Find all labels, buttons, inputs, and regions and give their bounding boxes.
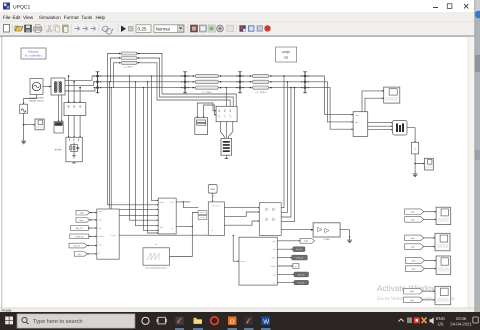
menu bar: [0, 12, 474, 22]
svg-text:Vab4: Vab4: [411, 211, 415, 214]
svg-text:Tools: Tools: [81, 15, 93, 20]
scope STop: [384, 87, 400, 103]
wire S3 bottom to S5: [233, 235, 240, 262]
svg-text:Programmable: Programmable: [29, 97, 44, 100]
watermark activate windows: [377, 284, 456, 302]
svg-text:0.25: 0.25: [138, 27, 147, 32]
svg-text:Iab4: Iab4: [411, 218, 415, 221]
logic glyphs pair: [198, 211, 207, 220]
DC link block: [195, 118, 208, 135]
svg-text:Normal: Normal: [156, 27, 170, 32]
svg-text:Vab1: Vab1: [79, 219, 83, 222]
wire LC out to ground: [340, 230, 352, 243]
svg-text:LCfilter: LCfilter: [323, 238, 330, 241]
tag-scope group 4: [404, 286, 451, 305]
wire B3 to scope B4 and ground: [413, 154, 424, 177]
block: signal builder small: [20, 95, 37, 114]
svg-text:name: name: [241, 261, 246, 263]
wires S2 to S3: [176, 201, 198, 227]
svg-text:Vab6: Vab6: [410, 290, 414, 293]
bus bar B2: [181, 72, 189, 93]
block B1 three-phase measurement: [353, 112, 368, 137]
svg-text:Av: Av: [155, 243, 157, 246]
ground under load: [73, 162, 76, 163]
svg-text:L2_100km: L2_100km: [256, 91, 267, 94]
subsystem S5 measurements display: [239, 237, 277, 285]
series transformer ST: [221, 138, 232, 158]
wire bundle V2 PWM to bus: [281, 75, 295, 221]
svg-text:30 MW: 30 MW: [54, 149, 62, 152]
measurement block M1 three-phase V-I: [64, 75, 86, 115]
svg-text:Vdc_D1: Vdc_D1: [73, 244, 80, 247]
svg-text:File: File: [3, 15, 11, 20]
subsystem S3 pulse generator: [208, 202, 224, 236]
svg-text:10:06: 10:06: [456, 316, 467, 321]
svg-text:Iab5: Iab5: [411, 246, 415, 249]
wire S1 output: [119, 234, 210, 236]
svg-text:Qst_D1: Qst_D1: [298, 273, 304, 276]
svg-text:Iab: Iab: [273, 248, 276, 251]
svg-text:Edit: Edit: [13, 15, 22, 20]
wires B1 to scope STop: [362, 90, 384, 112]
inverter INV1 (series converter): [216, 106, 237, 121]
svg-text:US: US: [438, 321, 444, 326]
subsystem S1 measurements: [97, 209, 119, 259]
svg-text:Iab6: Iab6: [410, 299, 414, 302]
svg-text:Vab5: Vab5: [411, 237, 415, 240]
svg-text:Iab_D1: Iab_D1: [296, 248, 302, 251]
svg-text:SAG: SAG: [210, 188, 215, 191]
THD meter B2: [393, 120, 408, 135]
svg-text:VcPlla: VcPlla: [98, 235, 104, 238]
svg-text:24-04-2021: 24-04-2021: [450, 321, 472, 326]
svg-text:Vst_D1: Vst_D1: [298, 281, 304, 284]
wire nested bends to inverter top: [157, 54, 236, 107]
svg-text:InP Pulse: InP Pulse: [212, 205, 220, 208]
svg-text:CB: CB: [284, 56, 288, 60]
svg-text:Vabc: Vabc: [355, 114, 359, 117]
line segment L1_70km: [192, 74, 221, 93]
svg-text:Vabc: Vabc: [98, 210, 102, 213]
block: multimeter under T1: [54, 95, 63, 133]
from tags column: [69, 210, 97, 256]
bus bar B3: [236, 72, 244, 93]
wires M1 to load: [68, 116, 81, 138]
svg-text:VcPll_D1: VcPll_D1: [296, 257, 304, 260]
svg-text:VcPll: VcPll: [271, 257, 276, 260]
block B3 gain: [411, 142, 418, 154]
svg-text:Iab: Iab: [98, 227, 101, 230]
wire source to T1: [43, 86, 51, 88]
LC filter block: [313, 223, 340, 241]
svg-text:Iab3: Iab3: [412, 268, 416, 271]
discrete sawtooth generator DG: [143, 243, 170, 269]
svg-text:Vab: Vab: [272, 240, 275, 243]
bus bar B4: [301, 72, 309, 93]
svg-text:Vab2: Vab2: [79, 212, 83, 215]
svg-text:P_abc: P_abc: [110, 234, 115, 237]
wires B1 to THD meter B2: [368, 122, 393, 131]
svg-text:Iabc: Iabc: [98, 219, 102, 222]
ground G1: [22, 125, 26, 144]
wires DC to inverter INV1: [197, 103, 217, 118]
wire bundle V1 to control subsystem: [107, 75, 158, 233]
svg-text:UPQC: UPQC: [282, 50, 292, 54]
svg-text:Iabc: Iabc: [355, 121, 358, 124]
wire to scope Sc1: [23, 113, 35, 125]
load block 30 MW: [54, 137, 82, 162]
tag-scope group 2: [405, 233, 450, 251]
source: Programmable Voltage Source: [29, 79, 45, 103]
svg-text:Help: Help: [96, 15, 106, 20]
svg-text:Vdc: Vdc: [98, 243, 101, 246]
desktop strip right: [475, 0, 480, 330]
svg-text:Format: Format: [64, 15, 80, 20]
subsystem S2 controller: [158, 198, 176, 234]
wire bus phase A: [65, 76, 324, 80]
wire bus phase B: [65, 82, 327, 86]
svg-text:L1_30km: L1_30km: [123, 66, 133, 69]
svg-text:W: W: [263, 319, 269, 326]
svg-text:freq: freq: [160, 226, 163, 229]
svg-text:TdRab: TdRab: [270, 265, 275, 268]
line segment L2_100km: [250, 74, 272, 93]
tag-scope group 1: [405, 207, 451, 224]
line segment L1_30km stub: [108, 52, 163, 88]
toolbar: [0, 22, 474, 36]
svg-text:Vab7: Vab7: [304, 240, 308, 243]
annotation UPQC CB: [276, 47, 297, 62]
svg-text:Vabc: Vabc: [160, 201, 164, 204]
status bar: [0, 308, 474, 313]
taskbar: [0, 312, 480, 330]
wire DG up: [170, 227, 193, 257]
wire B2 to B3: [407, 128, 416, 143]
svg-text:O: O: [230, 318, 235, 325]
tag-scope group 3: [405, 256, 450, 274]
wire S4 to LC filter: [281, 229, 313, 231]
svg-text:Iab_D1: Iab_D1: [76, 227, 84, 230]
wires bus to B1: [324, 76, 353, 130]
svg-text:VcPll_D1: VcPll_D1: [75, 235, 84, 238]
svg-text:Voltage Source: Voltage Source: [29, 100, 45, 103]
goto tags from S5: [277, 238, 314, 284]
svg-text:Ts = 5.05e-005 s.: Ts = 5.05e-005 s.: [25, 54, 43, 57]
scope Sc1: [35, 119, 44, 130]
svg-text:View: View: [23, 15, 34, 20]
transformer T1 (three-phase two windings): [51, 78, 65, 95]
wires INV1 to series transformer ST: [220, 122, 232, 139]
scope B4: [425, 158, 434, 170]
svg-text:Vab3: Vab3: [411, 259, 415, 262]
powergui block: Discrete: [21, 48, 46, 59]
wires S3 to S4: [224, 207, 259, 225]
svg-text:L1_70km: L1_70km: [202, 91, 212, 94]
svg-text:Discrete,: Discrete,: [28, 51, 39, 54]
bus bar B1: [94, 72, 102, 93]
svg-text:Ready: Ready: [2, 309, 12, 313]
svg-text:Simulation: Simulation: [39, 15, 61, 20]
svg-text:Type here to search: Type here to search: [33, 318, 82, 325]
svg-text:UPQC1: UPQC1: [13, 5, 30, 11]
wire bus phase C: [65, 88, 330, 91]
SAG block: [208, 184, 217, 202]
subsystem S4 PWM: [259, 203, 281, 236]
svg-text:DiscSawtoothGenerator: DiscSawtoothGenerator: [145, 266, 167, 269]
svg-text:ENG: ENG: [436, 316, 445, 321]
svg-text:Qst: Qst: [78, 253, 81, 256]
